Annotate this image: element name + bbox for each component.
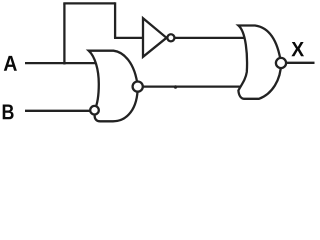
gate NOR2 body (right) [238,26,281,99]
label input A [4,56,17,71]
label output X [291,42,304,56]
inverter U1 triangle [143,18,167,57]
wire down to inverter level [114,2,116,38]
gate NOR1 body (left, inverted B input) [89,51,138,122]
bubble NOR2 output [276,58,286,68]
label input B [3,104,14,119]
bubble NOR1 inverted input (B) [90,106,99,115]
bubble inverter output [167,34,174,41]
wire B input [25,110,90,112]
wire top horizontal [63,2,115,4]
wire NOR1 output to NOR2 [144,85,252,87]
wire junction A up [63,3,65,64]
wire NOR2 output to X [287,62,315,64]
wire inverter output to NOR2 [175,37,247,39]
node junction dot on middle wire [174,85,177,88]
bubble NOR1 output [133,82,143,92]
wire A input [25,62,96,64]
wire into inverter input [114,37,144,39]
